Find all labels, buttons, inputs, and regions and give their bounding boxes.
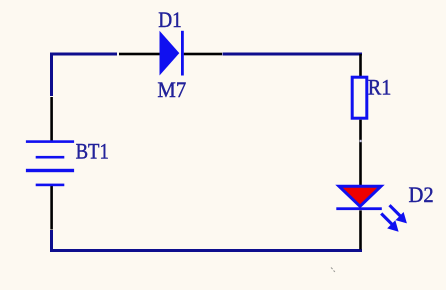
battery BT1 plate 2 short bbox=[36, 156, 65, 159]
svg-text:D1: D1 bbox=[158, 7, 182, 32]
wire top-right horizontal segment bbox=[223, 53, 363, 56]
battery BT1 plate 3 long bbox=[26, 169, 74, 172]
resistor R1 body bbox=[352, 77, 367, 118]
LED D2 triangle bbox=[339, 186, 381, 206]
LED D2 cathode bar bbox=[336, 207, 382, 210]
svg-text:M7: M7 bbox=[157, 77, 186, 102]
svg-text:D2: D2 bbox=[409, 182, 434, 207]
LED D2 arrow 1 bbox=[388, 204, 407, 223]
diode D1 right pin bbox=[184, 53, 222, 56]
svg-text:BT1: BT1 bbox=[76, 139, 109, 164]
wire left vertical lower segment bbox=[50, 230, 53, 252]
resistor R1 bottom pin bbox=[359, 120, 362, 186]
LED D2 bottom pin bbox=[359, 210, 362, 249]
diode D1 triangle bbox=[160, 31, 180, 76]
battery BT1 top pin bbox=[50, 97, 53, 142]
resistor R1 top pin bbox=[359, 54, 362, 76]
diode D1 left pin bbox=[119, 53, 161, 56]
wire left vertical upper segment bbox=[50, 53, 53, 97]
wire bottom horizontal segment bbox=[50, 249, 362, 252]
junction speck resistor/LED pin ends bbox=[360, 140, 362, 142]
diode D1 cathode bar bbox=[181, 31, 184, 76]
battery BT1 plate 4 short bbox=[36, 184, 65, 187]
LED D2 arrow 2 bbox=[380, 212, 399, 231]
battery BT1 bottom pin bbox=[50, 185, 53, 230]
battery BT1 plate 1 long bbox=[26, 140, 74, 143]
wire top-left horizontal segment bbox=[50, 53, 117, 56]
svg-text:R1: R1 bbox=[368, 75, 392, 100]
stray mark bottom center bbox=[331, 268, 335, 272]
